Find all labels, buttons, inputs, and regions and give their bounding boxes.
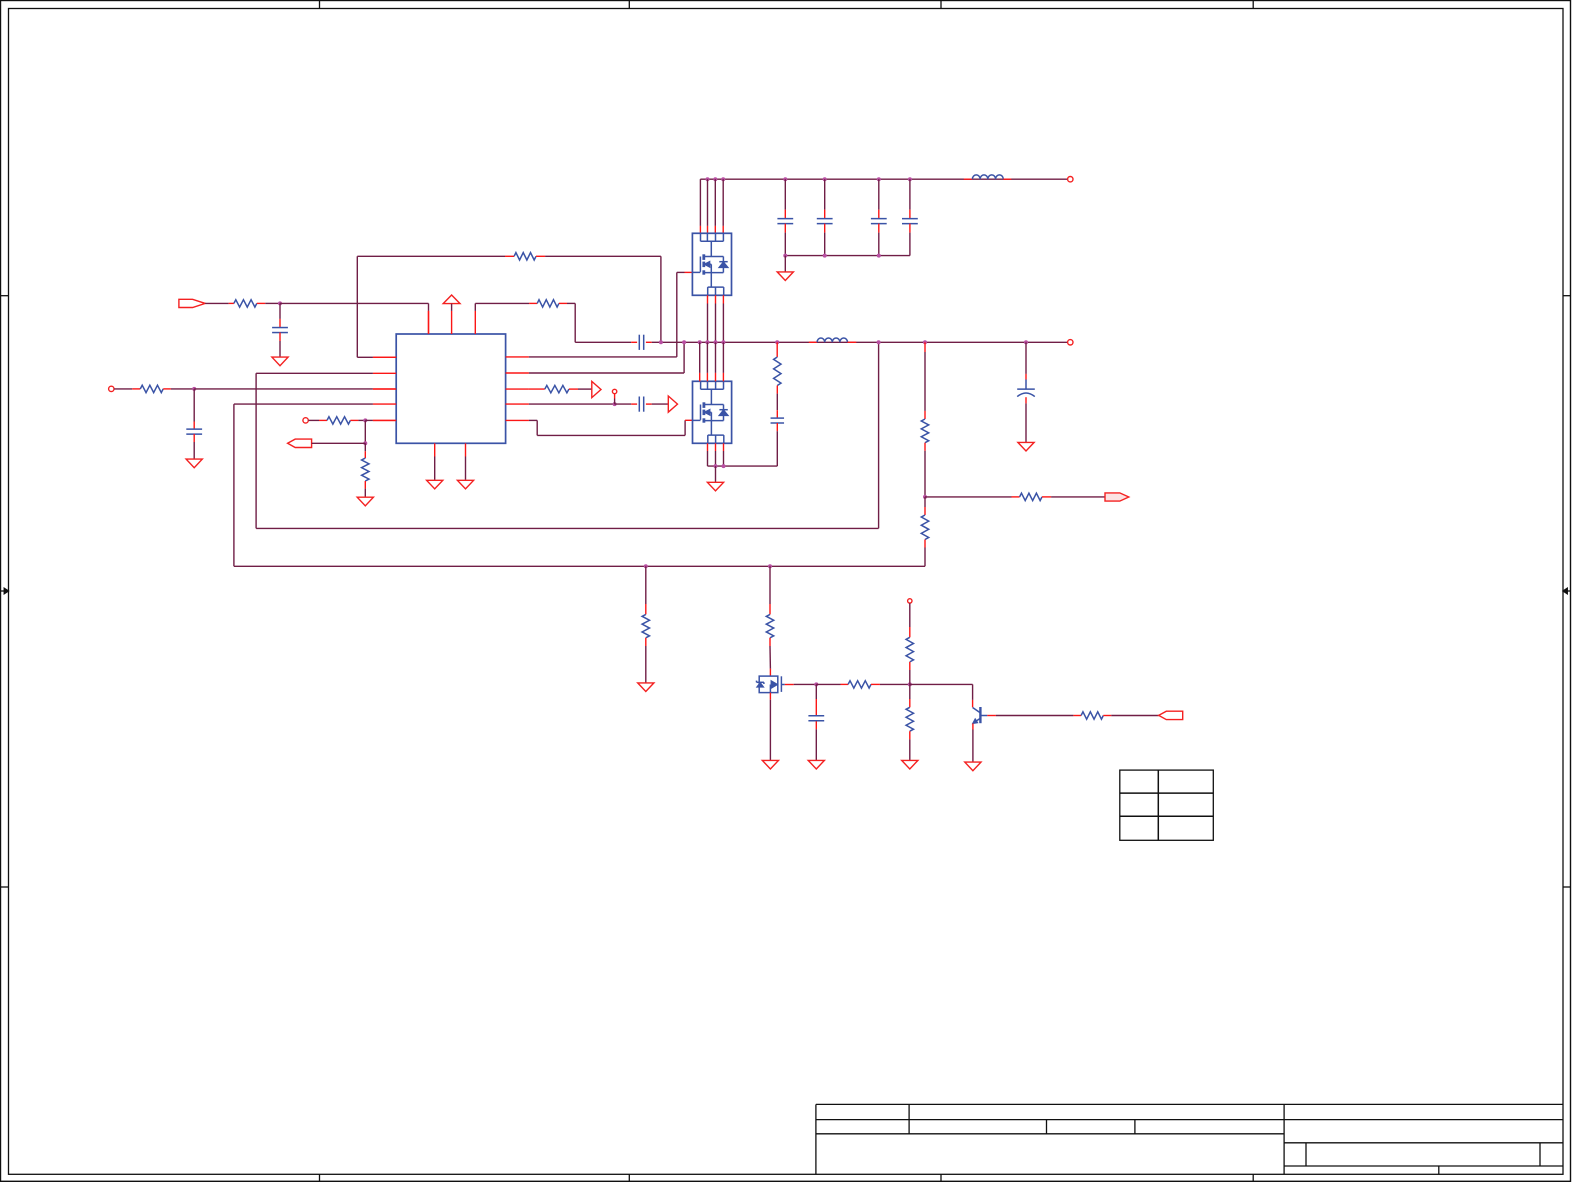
wire [465, 457, 467, 480]
junction [278, 301, 282, 305]
junction [706, 177, 710, 181]
wire [924, 548, 926, 567]
junction [775, 340, 779, 344]
terminal T1 [109, 386, 114, 391]
junction [705, 340, 709, 344]
wire to Q1 gate [529, 356, 677, 358]
wire node BOOT [373, 356, 396, 358]
port P2 flag [288, 439, 312, 447]
junction [363, 441, 367, 445]
U1 top pins [428, 311, 430, 334]
junction [923, 495, 927, 499]
resistor R5 [505, 255, 514, 257]
junction [714, 340, 718, 344]
ground [186, 459, 202, 468]
transistor Q2 low-side MOSFET module [693, 381, 732, 443]
junction [877, 340, 881, 344]
wire [312, 442, 366, 444]
ground [965, 762, 981, 771]
wire [171, 388, 194, 390]
ground [357, 497, 373, 506]
wire [910, 683, 973, 685]
junction [814, 682, 818, 686]
resistor R13 [909, 603, 911, 627]
wire node VIN rail [700, 178, 1067, 180]
ground [1018, 442, 1034, 451]
wire [265, 302, 280, 304]
wire [474, 303, 476, 311]
wire to Q2 gate [529, 419, 537, 421]
wire [715, 466, 717, 482]
junction [721, 340, 725, 344]
wire [652, 403, 669, 405]
junction [698, 340, 702, 344]
transistor Q1 high-side MOSFET module [692, 233, 731, 295]
ground [808, 760, 824, 769]
terminal T2 [303, 418, 308, 423]
wire [769, 700, 771, 761]
wire node SW rail [661, 341, 1068, 343]
junction [877, 177, 881, 181]
capacitor C5 [878, 179, 880, 209]
transistor Q4 BJT [973, 700, 988, 730]
junction [923, 340, 927, 344]
wire [1051, 496, 1105, 498]
capacitor C6 [909, 179, 911, 209]
junction [722, 464, 726, 468]
U1 bottom pins [434, 443, 436, 456]
wire [567, 302, 575, 304]
IC U1 [396, 334, 505, 443]
wire [880, 683, 910, 685]
junction [714, 464, 718, 468]
capacitor C9 snubber [776, 394, 778, 411]
resistor R14 [909, 684, 911, 699]
wire [364, 420, 366, 443]
capacitor C10 electrolytic [1025, 342, 1027, 374]
wire [794, 683, 817, 685]
resistor R9 [924, 497, 926, 507]
resistor R11 [645, 566, 647, 604]
wire [1111, 715, 1158, 717]
wire [434, 457, 436, 480]
arrow A2 [668, 396, 677, 412]
wire Q2 source bus [707, 443, 709, 451]
junction [713, 177, 717, 181]
power VCC arrow [443, 295, 460, 304]
U1 left pins [373, 356, 396, 358]
wire Q1 drain feeds [699, 179, 701, 226]
wire [776, 431, 778, 466]
wire [114, 388, 132, 390]
capacitor C2 [193, 389, 195, 422]
resistor R2 [132, 388, 140, 390]
wire Q2 drain feeds [699, 342, 701, 373]
junction [1024, 340, 1028, 344]
testpoint TP2 [908, 599, 912, 603]
capacitor C1 [279, 303, 281, 319]
capacitor C8 [615, 403, 632, 405]
ground [707, 482, 723, 491]
title block [816, 1103, 1563, 1105]
U1 right pins [506, 356, 529, 358]
resistor R1 [229, 302, 234, 304]
wire [545, 255, 661, 257]
wire [784, 256, 786, 272]
arrow A1 [592, 381, 601, 397]
junction [877, 254, 881, 258]
transistor Q3 [757, 669, 794, 700]
junction [908, 682, 912, 686]
wire gnd bus [785, 255, 910, 257]
ground [457, 480, 473, 489]
resistor R7 [529, 388, 545, 390]
revision table [1120, 770, 1214, 840]
inductor L1 [964, 178, 973, 180]
wire [987, 715, 996, 717]
capacitor C7 [631, 341, 637, 343]
inductor L2 [809, 341, 817, 343]
capacitor C11 [815, 684, 817, 699]
wire [924, 451, 926, 497]
junction [192, 387, 196, 391]
ground [762, 760, 778, 769]
ground [777, 272, 793, 281]
port P4 flag [1159, 711, 1183, 719]
port P1 input flag [179, 299, 205, 307]
junction [908, 177, 912, 181]
junction [768, 564, 772, 568]
junction [613, 402, 617, 406]
wire node FB divider [234, 403, 373, 405]
resistor R10 [1012, 496, 1020, 498]
resistor R6 [529, 302, 537, 304]
resistor R3 [319, 419, 327, 421]
ground [427, 480, 443, 489]
wire [280, 302, 429, 304]
wire node VOUT sense [256, 372, 373, 374]
ground [272, 357, 288, 366]
terminal CON1 [1068, 177, 1073, 182]
resistor R8 [924, 342, 926, 352]
junction [659, 340, 663, 344]
junction [363, 418, 367, 422]
wire [205, 302, 229, 304]
resistor R12 [769, 566, 771, 604]
junction [721, 177, 725, 181]
capacitor C4 [824, 179, 826, 209]
wire to U1 pin EN [428, 303, 430, 311]
ground [638, 683, 654, 692]
wire node SW sense [529, 372, 684, 374]
testpoint TP1 [612, 389, 616, 393]
ground [902, 760, 918, 769]
resistor R16 [1073, 715, 1081, 717]
wire [358, 419, 365, 421]
junction [823, 177, 827, 181]
resistor R15 [841, 683, 849, 685]
junction [682, 340, 686, 344]
wire [972, 730, 974, 763]
junction [823, 254, 827, 258]
wire [769, 646, 771, 669]
wire [816, 683, 840, 685]
capacitor C3 [784, 179, 786, 209]
junction [783, 254, 787, 258]
port P3 output flag [1105, 493, 1129, 501]
wire [909, 739, 911, 760]
terminal CON2 [1068, 340, 1073, 345]
wire [529, 403, 615, 405]
wire Q1 source to SW [707, 295, 709, 303]
wire [578, 388, 592, 390]
wire [309, 419, 320, 421]
resistor R4 [364, 443, 366, 451]
wire to U1 pin FB [194, 388, 373, 390]
resistor R17 snubber [776, 342, 778, 357]
wire [645, 646, 647, 683]
wire to U1 pin SS [365, 419, 373, 421]
junction [783, 177, 787, 181]
wire [652, 341, 661, 343]
wire [925, 496, 1012, 498]
wire [451, 304, 453, 311]
junction [644, 564, 648, 568]
